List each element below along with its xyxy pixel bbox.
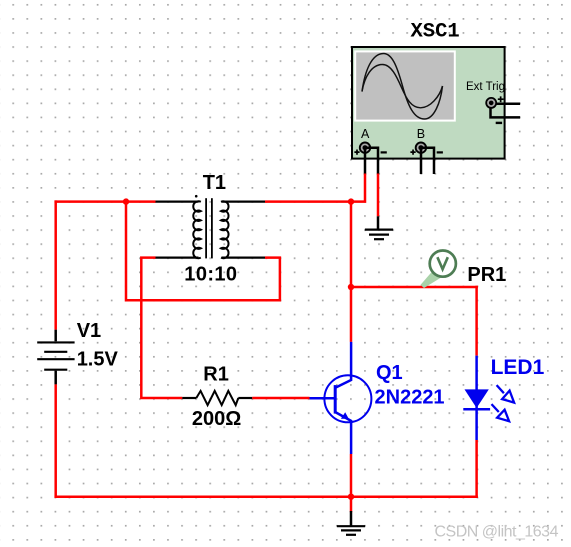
svg-text:10:10: 10:10	[184, 263, 237, 285]
svg-text:T1: T1	[203, 172, 226, 194]
wire LED upper red	[475, 286, 478, 356]
ground bottom	[337, 511, 365, 535]
wire collector red	[350, 202, 353, 342]
channel A terminal	[354, 143, 386, 155]
svg-text:Q1: Q1	[376, 362, 403, 384]
Ext Trig plus wire	[496, 103, 520, 106]
wire scope B minus stub	[421, 148, 434, 174]
transistor Q1	[310, 342, 372, 454]
wire top right	[265, 200, 351, 203]
battery V1	[37, 330, 74, 385]
Ext Trig terminal	[486, 96, 503, 124]
oscilloscope XSC1 body	[352, 47, 505, 159]
Ext Trig minus wire	[491, 108, 521, 118]
svg-text:1.5V: 1.5V	[77, 348, 119, 370]
resistor R1	[182, 391, 252, 405]
wire top left	[54, 200, 155, 203]
svg-text:R1: R1	[203, 363, 229, 385]
svg-text:Ext Trig: Ext Trig	[466, 81, 505, 93]
svg-text:2N2221: 2N2221	[375, 387, 445, 409]
svg-text:CSDN @liht_1634: CSDN @liht_1634	[435, 524, 559, 541]
probe PR1	[421, 251, 456, 289]
scope trace channel B	[362, 65, 443, 108]
svg-text:XSC1: XSC1	[411, 21, 460, 44]
svg-text:LED1: LED1	[491, 356, 545, 379]
junction node collector top	[348, 198, 354, 204]
wire R1 to base	[252, 397, 309, 400]
wire left coil to R1	[141, 258, 182, 398]
wire left vertical lower	[54, 384, 57, 498]
wire secondary loop	[126, 202, 280, 301]
svg-text:200Ω: 200Ω	[192, 408, 241, 430]
scope trace channel A	[362, 54, 443, 120]
wire A minus down	[377, 174, 380, 217]
wire ground stub bottom	[350, 497, 353, 513]
wire LED lower red	[475, 440, 478, 498]
channel B terminal	[410, 143, 443, 155]
transformer T1	[155, 195, 265, 259]
wire scope B plus stub	[420, 150, 423, 174]
oscilloscope screen	[354, 50, 456, 121]
wire PR1 horizontal	[351, 286, 478, 289]
svg-text:A: A	[361, 127, 370, 141]
LED LED1	[463, 356, 514, 440]
wire A plus to node	[351, 174, 365, 202]
junction node transformer left	[123, 198, 129, 204]
wire bottom	[54, 495, 477, 498]
wire scope A minus stub	[365, 148, 378, 175]
wire emitter red	[350, 454, 353, 497]
svg-text:V1: V1	[77, 320, 101, 342]
svg-text:B: B	[417, 127, 425, 141]
ground near scope	[365, 216, 393, 239]
junction node bottom	[348, 494, 354, 500]
wire left vertical upper	[54, 200, 57, 329]
junction node PR1	[348, 284, 354, 290]
wire scope A plus stub	[364, 150, 367, 175]
svg-text:PR1: PR1	[467, 264, 506, 286]
